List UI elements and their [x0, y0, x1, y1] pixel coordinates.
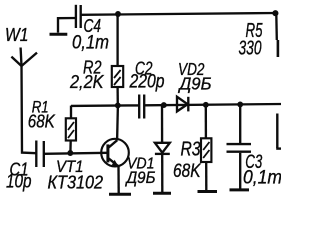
svg-text:0,1m: 0,1m — [72, 33, 109, 54]
svg-text:Д9Б: Д9Б — [178, 74, 212, 94]
svg-text:68K: 68K — [28, 112, 56, 132]
svg-text:220p: 220p — [129, 72, 165, 93]
svg-text:W1: W1 — [5, 24, 29, 45]
svg-text:Д9Б: Д9Б — [125, 168, 156, 187]
svg-text:10p: 10p — [6, 172, 32, 193]
svg-text:68K: 68K — [173, 161, 202, 182]
svg-text:R3: R3 — [181, 139, 201, 161]
svg-text:0,1m: 0,1m — [243, 166, 281, 188]
svg-text:330: 330 — [239, 38, 262, 60]
svg-text:2,2K: 2,2K — [69, 71, 105, 92]
svg-text:КТ3102: КТ3102 — [48, 172, 104, 192]
